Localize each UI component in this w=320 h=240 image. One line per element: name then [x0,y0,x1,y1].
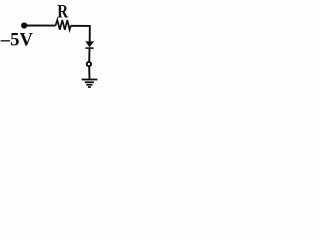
wire node circle to ground [88,67,90,79]
resistor R zigzag [56,20,71,30]
svg-text:–5V: –5V [0,29,33,50]
ground bar 3 [86,84,92,86]
ground bar 4 [88,86,91,88]
node -5V terminal dot [21,22,27,28]
wire from resistor to corner [71,25,91,27]
wire from -5V dot to resistor [24,25,55,27]
open node circle [87,62,91,66]
svg-text:R: R [57,2,68,23]
diode cathode bar [86,47,94,49]
ground bar 2 [85,81,94,83]
diode D (cathode down) triangle [85,41,94,47]
ground bar 1 [82,79,98,81]
wire corner down to diode anode [89,26,91,42]
wire diode to node circle [88,49,90,62]
